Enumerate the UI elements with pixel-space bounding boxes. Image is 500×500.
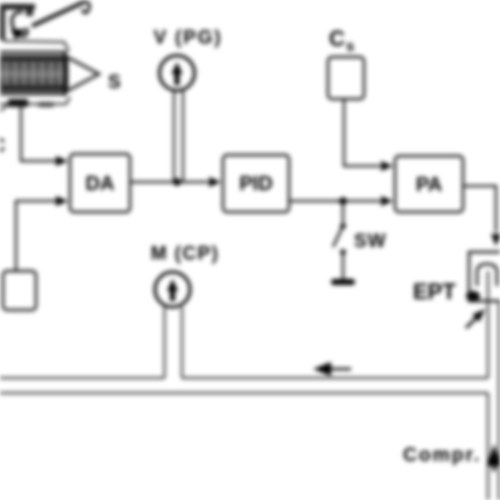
gauge V needle [175, 70, 180, 85]
arrowhead PA upper input [381, 161, 393, 171]
arrowhead down into EPT [491, 234, 500, 246]
svg-text:s: s [346, 38, 354, 55]
arrowhead DA upper input [56, 156, 68, 166]
svg-text:M (CP): M (CP) [151, 244, 220, 265]
gauge M stem double line [164, 307, 166, 378]
adjustment arrow tail curl [83, 2, 90, 13]
siren coil hatched band [0, 55, 64, 92]
svg-text:V (PG): V (PG) [154, 28, 223, 49]
wire PA to EPT [463, 186, 496, 232]
siren bracket top bar [0, 4, 35, 10]
svg-text:SW: SW [354, 231, 387, 252]
siren top plate [3, 41, 69, 51]
switch lower contact [340, 249, 346, 255]
reference box lower-left [3, 271, 36, 310]
siren body bottom line [0, 93, 64, 95]
gauge V stem double line [173, 91, 175, 181]
siren foot block [8, 99, 28, 107]
siren coil top dark band [0, 55, 64, 62]
switch lower lead [342, 252, 344, 279]
junction dot SW branch [339, 197, 347, 205]
siren body top line [0, 51, 67, 53]
DA box [70, 154, 130, 212]
gauge M needle [170, 287, 175, 301]
arrowhead PA lower input [381, 196, 393, 206]
pipe flow arrow up [493, 460, 496, 471]
svg-text:S: S [108, 72, 121, 93]
siren coil bottom dark band [0, 85, 64, 92]
PID box [223, 155, 289, 212]
gauge V circle [160, 56, 195, 91]
wire siren to DA upper input [21, 104, 58, 161]
PA box [395, 156, 463, 212]
pipe vertical right line [498, 301, 500, 500]
EPT dome [477, 264, 497, 286]
wire PID to PA [289, 200, 380, 202]
switch upper contact [340, 223, 346, 229]
EPT adjustment arrow [466, 315, 479, 328]
pipe horizontal top line [0, 377, 488, 379]
switch arm [333, 228, 342, 247]
junction dot V stem [173, 178, 181, 186]
svg-text:Compr.: Compr. [403, 444, 481, 466]
arrowhead DA lower input [56, 196, 68, 206]
siren horn triangle [67, 57, 99, 91]
siren coil lighter middle stripe [0, 70, 64, 78]
EPT corner blob [466, 291, 480, 301]
svg-text:DA: DA [86, 173, 115, 195]
switch SW branch [342, 201, 344, 223]
command box Cs [328, 57, 364, 99]
siren front plate [64, 51, 67, 96]
siren bracket right leg [26, 4, 33, 16]
switch ground bar [331, 279, 355, 285]
siren foot block 2 [38, 102, 54, 107]
gauge M circle [155, 272, 190, 307]
wire box to DA lower input [16, 201, 58, 271]
svg-text:C: C [329, 26, 345, 51]
pipe flow arrow left [331, 368, 351, 371]
pipe horizontal bottom line [0, 392, 488, 394]
arrowhead PID input [209, 177, 221, 187]
adjustment arrow line [32, 2, 84, 26]
svg-text:EPT: EPT [413, 279, 456, 304]
siren inner hook [12, 12, 27, 36]
wire DA to PID [130, 181, 208, 183]
EPT box [469, 252, 500, 301]
svg-text:PID: PID [239, 173, 272, 195]
svg-text:PA: PA [416, 174, 442, 196]
adjustment arrow head [11, 24, 28, 40]
wire Cs to PA upper input [344, 99, 380, 166]
pipe vertical left line [487, 271, 489, 500]
svg-text:C: C [0, 135, 5, 157]
siren left diagonal strut [0, 104, 9, 111]
siren baseplate [0, 97, 70, 104]
siren bracket left leg [0, 4, 5, 40]
